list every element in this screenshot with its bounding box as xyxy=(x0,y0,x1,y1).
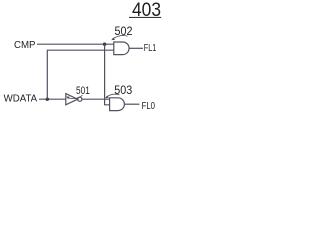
inverter 501 bubble xyxy=(78,97,82,101)
svg-text:CMP: CMP xyxy=(14,39,36,51)
svg-text:501: 501 xyxy=(76,85,90,97)
AND gate 503 xyxy=(110,98,125,111)
wire WDATA branch up to AND gate 502 bottom input xyxy=(47,50,114,99)
wire CMP branch down to AND gate 503 xyxy=(105,44,110,105)
svg-text:502: 502 xyxy=(115,26,133,38)
leader arrow 503 xyxy=(105,94,120,98)
svg-text:FL0: FL0 xyxy=(142,100,156,112)
inverter 501 triangle xyxy=(66,94,78,105)
svg-text:WDATA: WDATA xyxy=(4,94,38,105)
leader arrow 501 xyxy=(66,95,83,99)
junction on WDATA wire xyxy=(46,98,49,101)
AND gate 502 xyxy=(114,42,129,55)
leader arrow 502 xyxy=(111,35,127,40)
junction on CMP wire xyxy=(103,43,106,46)
wire WDATA to inverter 501 input xyxy=(39,98,66,100)
svg-text:FL1: FL1 xyxy=(144,43,157,54)
wire AND gate 502 output to FL1 xyxy=(129,47,143,49)
svg-text:503: 503 xyxy=(114,85,132,97)
wire inverter 501 output to AND gate 503 top input xyxy=(82,98,110,100)
wire CMP to AND gate 502 top input xyxy=(37,43,114,45)
wire AND gate 503 output to FL0 xyxy=(124,103,139,105)
figure number 403 xyxy=(129,0,161,21)
